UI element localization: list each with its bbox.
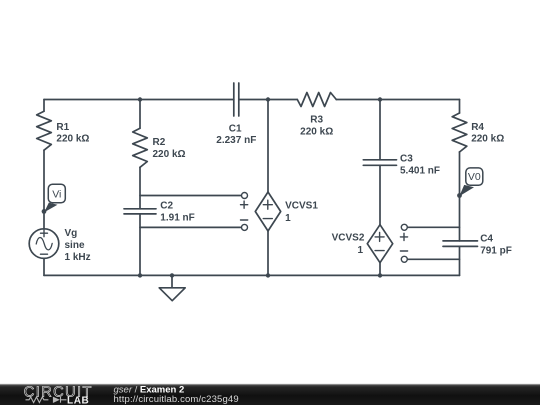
svg-text:http://circuitlab.com/c235g49: http://circuitlab.com/c235g49	[114, 394, 239, 405]
svg-text:220 kΩ: 220 kΩ	[471, 133, 504, 144]
svg-text:R3: R3	[310, 114, 323, 125]
svg-text:C1: C1	[229, 123, 242, 134]
svg-text:LAB: LAB	[67, 395, 89, 405]
svg-text:C3: C3	[400, 154, 413, 165]
svg-text:220 kΩ: 220 kΩ	[300, 126, 333, 137]
svg-text:2.237 nF: 2.237 nF	[216, 135, 256, 146]
svg-text:VCVS2: VCVS2	[332, 233, 365, 244]
svg-text:1.91 nF: 1.91 nF	[160, 212, 194, 223]
svg-text:R2: R2	[153, 137, 166, 148]
svg-text:V0: V0	[468, 171, 481, 183]
svg-text:5.401 nF: 5.401 nF	[400, 166, 440, 177]
svg-text:Vg: Vg	[65, 228, 78, 239]
svg-text:Vi: Vi	[52, 188, 61, 200]
svg-text:220 kΩ: 220 kΩ	[153, 149, 186, 160]
svg-text:1: 1	[358, 245, 364, 256]
svg-text:VCVS1: VCVS1	[285, 200, 318, 211]
svg-text:1: 1	[285, 213, 291, 224]
svg-text:C4: C4	[480, 234, 493, 245]
svg-text:R4: R4	[471, 122, 484, 133]
svg-text:1 kHz: 1 kHz	[65, 252, 91, 263]
svg-text:C2: C2	[160, 200, 173, 211]
svg-text:791 pF: 791 pF	[480, 246, 512, 257]
svg-text:sine: sine	[65, 240, 85, 251]
svg-text:R1: R1	[56, 122, 69, 133]
svg-text:220 kΩ: 220 kΩ	[56, 134, 89, 145]
